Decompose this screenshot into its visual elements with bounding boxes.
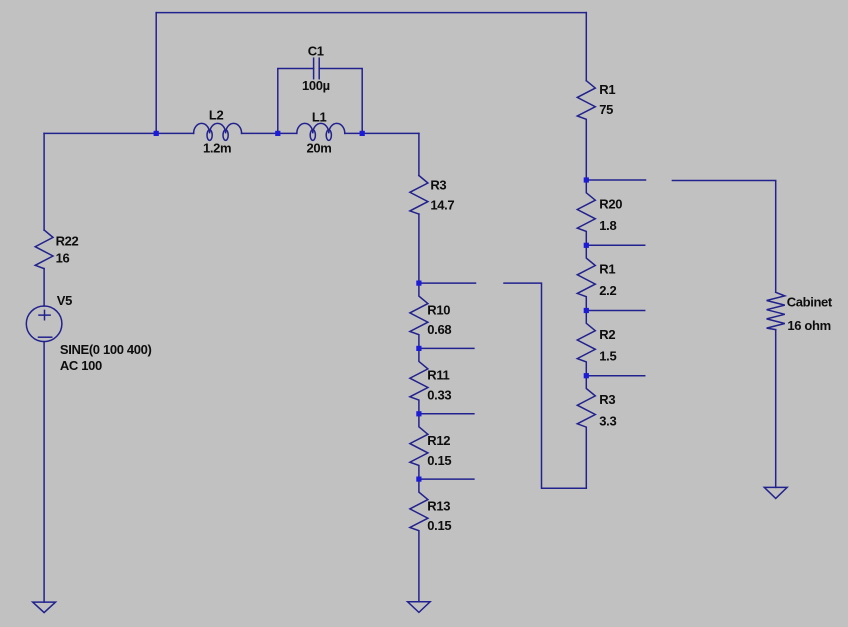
wire R3 to node (418, 214, 420, 283)
svg-text:1.5: 1.5 (599, 348, 616, 363)
wire R22 to V5 (43, 269, 45, 306)
resistor R2 1.5 (577, 311, 616, 376)
svg-text:100µ: 100µ (302, 78, 330, 93)
wire top-left vertical (155, 13, 157, 134)
wire stub row4 (419, 478, 474, 480)
svg-text:R13: R13 (427, 498, 450, 513)
resistor R3 3.3 (577, 376, 616, 489)
node junction J11 (584, 373, 589, 378)
wire capacitor bracket left (278, 69, 314, 134)
svg-text:L1: L1 (312, 110, 327, 125)
node junction J8 (584, 177, 589, 182)
wire cabinet to ground (775, 330, 777, 488)
wire stub row3 (419, 413, 474, 415)
node junction J9 (584, 243, 589, 248)
resistor R20 (577, 180, 622, 245)
resistor R12 (410, 414, 451, 479)
resistor R11 (410, 348, 451, 413)
svg-text:L2: L2 (209, 108, 224, 123)
node junction J4 (416, 281, 421, 286)
svg-text:16: 16 (56, 251, 70, 266)
wire corner down to R3 (418, 133, 420, 175)
svg-text:0.68: 0.68 (427, 322, 451, 337)
inductor L1 (297, 110, 345, 156)
wire stub row2 (419, 347, 474, 349)
node junction J5 (416, 346, 421, 351)
resistor Cabinet (767, 292, 833, 333)
wire capacitor bracket right (319, 69, 362, 134)
capacitor C1 (302, 43, 330, 93)
svg-text:C1: C1 (308, 43, 324, 58)
wire left branch vertical (43, 133, 45, 230)
svg-text:R2: R2 (599, 327, 615, 342)
svg-text:R22: R22 (56, 233, 79, 248)
svg-text:R10: R10 (427, 302, 450, 317)
svg-text:SINE(0 100 400): SINE(0 100 400) (60, 342, 152, 357)
wire top horizontal (156, 12, 586, 14)
resistor R3 14.7 (410, 176, 455, 215)
svg-text:14.7: 14.7 (430, 197, 454, 212)
resistor R1 75 (577, 81, 615, 180)
resistor R10 (410, 283, 451, 348)
svg-text:AC 100: AC 100 (60, 358, 102, 373)
node junction J3 (360, 131, 365, 136)
wire top-right vertical to R1 (585, 13, 587, 81)
wire cabinet feed (672, 181, 775, 293)
ground right (764, 487, 787, 498)
node junction J7 (416, 477, 421, 482)
ground middle (408, 602, 431, 613)
svg-text:3.3: 3.3 (599, 414, 616, 429)
resistor R1 2.2 (577, 245, 616, 310)
svg-text:Cabinet: Cabinet (787, 294, 833, 309)
svg-text:0.15: 0.15 (427, 453, 451, 468)
inductor L2 (194, 108, 242, 156)
svg-text:0.33: 0.33 (427, 388, 451, 403)
svg-text:2.2: 2.2 (599, 283, 616, 298)
svg-text:R3: R3 (599, 392, 615, 407)
svg-text:R1: R1 (599, 262, 615, 277)
svg-text:R1: R1 (599, 82, 615, 97)
svg-text:20m: 20m (307, 141, 332, 156)
node junction J2 (275, 131, 280, 136)
voltage source V5 (26, 293, 151, 373)
svg-text:1.2m: 1.2m (203, 141, 231, 156)
wire V5 to ground (43, 342, 45, 602)
wire stub right row1 (586, 179, 645, 181)
resistor R13 (410, 479, 451, 602)
wire L1 to R3 corner (345, 132, 419, 134)
wire stub right row4 (586, 375, 644, 377)
wire between L2 and L1 (242, 132, 297, 134)
wire stub right row3 (586, 310, 644, 312)
svg-text:R3: R3 (430, 177, 446, 192)
wire stub row1 left (419, 282, 476, 284)
svg-text:R11: R11 (427, 368, 449, 383)
svg-text:1.8: 1.8 (599, 218, 616, 233)
svg-text:R20: R20 (599, 196, 622, 211)
svg-text:16 ohm: 16 ohm (787, 318, 830, 333)
svg-text:R12: R12 (427, 433, 450, 448)
svg-text:0.15: 0.15 (427, 518, 451, 533)
wire stub right row2 (586, 244, 644, 246)
node junction J6 (416, 411, 421, 416)
ground left (33, 602, 56, 613)
svg-text:75: 75 (599, 102, 613, 117)
node junction J10 (584, 308, 589, 313)
svg-text:V5: V5 (57, 293, 72, 308)
wire main horizontal left (44, 132, 194, 134)
wire stub row1 right + vertical + bottom (504, 283, 586, 488)
resistor R22 (35, 230, 78, 269)
node junction J1 (154, 131, 159, 136)
